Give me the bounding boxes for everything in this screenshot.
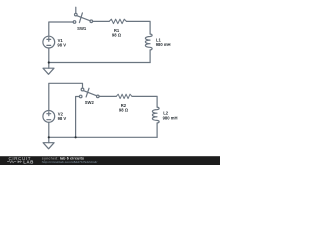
svg-text:98 Ω: 98 Ω bbox=[112, 32, 122, 37]
svg-text:98 Ω: 98 Ω bbox=[119, 107, 129, 112]
svg-text:http://circuitlab.com/c8dd7b7k: http://circuitlab.com/c8dd7b7k22dm4/ bbox=[42, 160, 98, 164]
svg-text:SW2: SW2 bbox=[85, 100, 95, 105]
svg-text:SW1: SW1 bbox=[77, 26, 87, 31]
svg-text:LAB: LAB bbox=[23, 159, 34, 164]
svg-text:98 V: 98 V bbox=[57, 43, 66, 48]
svg-text:980 mH: 980 mH bbox=[163, 116, 178, 121]
svg-text:98 V: 98 V bbox=[58, 116, 67, 121]
svg-text:980 mH: 980 mH bbox=[156, 42, 171, 47]
